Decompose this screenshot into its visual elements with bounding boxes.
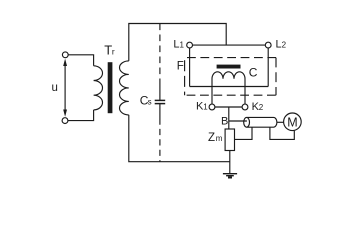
svg-text:C: C	[249, 66, 258, 80]
wire: cable to motor	[277, 121, 284, 123]
svg-text:r: r	[112, 47, 115, 57]
wire: L1 to L2	[193, 44, 266, 46]
wire: junction drop to Zm	[228, 107, 230, 129]
svg-text:1: 1	[203, 103, 208, 112]
ground	[223, 174, 237, 179]
wire: secondary bottom lead and bottom ground bus	[129, 115, 230, 162]
transformer T_r secondary winding	[119, 61, 128, 115]
motor M	[284, 113, 302, 131]
stator frame right side	[267, 48, 269, 87]
wire: node B to cable core	[229, 120, 247, 122]
capacitor C_s plates	[155, 99, 166, 101]
impedance Zm	[225, 129, 234, 151]
voltage source u (double-headed arrow)	[63, 59, 67, 117]
wire: primary coil bottom to bottom terminal	[68, 110, 94, 121]
svg-text:Z: Z	[208, 132, 215, 144]
svg-text:s: s	[148, 98, 152, 107]
cable body (cylinder)	[247, 117, 277, 127]
field coil C core bar	[217, 65, 241, 69]
svg-text:M: M	[287, 115, 297, 129]
wire: Zm right side to cable sheath	[235, 127, 253, 139]
svg-text:2: 2	[259, 103, 264, 112]
svg-text:2: 2	[282, 41, 287, 50]
wire: Zm bottom to ground	[229, 151, 231, 174]
cable left cap	[244, 117, 250, 127]
svg-text:B: B	[221, 115, 228, 127]
wire: K1 to K2	[215, 106, 242, 108]
node L2	[265, 42, 271, 48]
node K2	[242, 104, 248, 110]
transformer T_r core	[108, 62, 113, 113]
node L1	[187, 42, 193, 48]
stator frame bottom	[190, 86, 269, 88]
wire: top terminal to primary coil	[68, 55, 93, 66]
stator frame left side	[189, 48, 191, 87]
boundary dashed line (lower part)	[159, 119, 161, 162]
svg-text:1: 1	[180, 41, 185, 50]
svg-text:m: m	[216, 134, 223, 143]
wire: cable sheath to motor frame	[270, 127, 294, 139]
node: source top terminal	[62, 52, 68, 58]
machine dashed enclosure F	[185, 58, 276, 96]
boundary dashed line (upper part)	[159, 24, 161, 85]
field coil C winding with leads to K1/K2	[212, 72, 245, 104]
svg-text:F: F	[177, 60, 184, 72]
transformer T_r primary winding	[94, 66, 103, 110]
node K1	[209, 104, 215, 110]
capacitor C_s leads (solid)	[159, 84, 161, 100]
svg-text:u: u	[52, 82, 58, 94]
node: source bottom terminal	[62, 118, 68, 124]
wire: secondary top lead, top wire, feed drop to L1-L2 wire	[129, 24, 226, 61]
